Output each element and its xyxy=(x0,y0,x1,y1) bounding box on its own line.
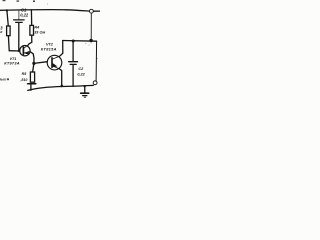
stray mark bottom left xyxy=(7,78,9,80)
wire node to VT2 base xyxy=(34,62,47,64)
svg-text:КТ815А: КТ815А xyxy=(41,46,57,51)
resistor R4 xyxy=(30,25,34,35)
stray mark top left xyxy=(3,0,6,1)
wire collector top line xyxy=(63,40,97,43)
svg-text:33 Ом: 33 Ом xyxy=(34,31,45,35)
wire top terminal riser xyxy=(90,13,92,41)
stray mark top mid xyxy=(33,0,35,2)
terminal X2 right xyxy=(93,81,97,85)
wire R4 bottom lead to VT1 collector xyxy=(28,35,32,45)
stray mark top xyxy=(17,0,20,1)
transistor VT1 emitter arrow xyxy=(25,51,29,54)
wire VT2 collector riser xyxy=(60,41,63,57)
wire VT1 base wire xyxy=(9,50,20,52)
svg-text:0,22: 0,22 xyxy=(20,12,29,17)
wire C2 top lead xyxy=(72,42,74,61)
node emitter-rail junction xyxy=(61,85,64,88)
svg-text:810: 810 xyxy=(21,78,27,82)
node base junction xyxy=(18,50,20,52)
svg-text:1к: 1к xyxy=(0,30,3,34)
transistor VT2 emitter arrow xyxy=(52,63,57,67)
transistor VT2 xyxy=(47,55,62,70)
wire C1 bottom lead xyxy=(18,23,20,51)
wire node to R5 xyxy=(33,63,34,72)
node dot terminal riser xyxy=(89,39,92,42)
wire C1 top stub xyxy=(18,10,20,19)
wire R3 top lead xyxy=(7,10,8,26)
node emitter junction xyxy=(32,62,35,65)
wire C2 bottom lead xyxy=(72,65,74,87)
speckle xyxy=(85,42,86,45)
ground stub xyxy=(84,85,86,87)
transistor VT1 xyxy=(20,46,30,56)
capacitor C2 xyxy=(69,61,78,63)
node dot C2 tap xyxy=(72,40,75,43)
resistor R5 xyxy=(30,72,34,82)
svg-text:КТ973А: КТ973А xyxy=(4,61,20,66)
wire from terminal to right edge xyxy=(94,10,101,12)
capacitor C1 xyxy=(14,19,25,21)
svg-text:0,22: 0,22 xyxy=(77,72,85,76)
wire right corner down xyxy=(95,41,98,81)
wire VT1 emitter lead xyxy=(30,52,34,64)
ground xyxy=(81,92,89,94)
node R3 tap xyxy=(6,9,8,11)
terminal X1 top xyxy=(90,9,94,13)
wire R5 bottom bar xyxy=(28,83,36,85)
wire R4 top lead xyxy=(30,10,32,26)
svg-text:C2: C2 xyxy=(78,67,84,71)
svg-text:R5: R5 xyxy=(22,72,28,76)
resistor R3 xyxy=(7,26,11,36)
wire VT2 emitter riser xyxy=(59,69,62,87)
wire R3 bottom lead xyxy=(7,36,10,51)
wire R5 to bottom rail xyxy=(30,84,32,90)
svg-text:вых: вых xyxy=(0,78,6,82)
svg-text:R4: R4 xyxy=(34,26,40,30)
wire top rail xyxy=(0,10,89,11)
wire bottom rail xyxy=(28,85,94,90)
